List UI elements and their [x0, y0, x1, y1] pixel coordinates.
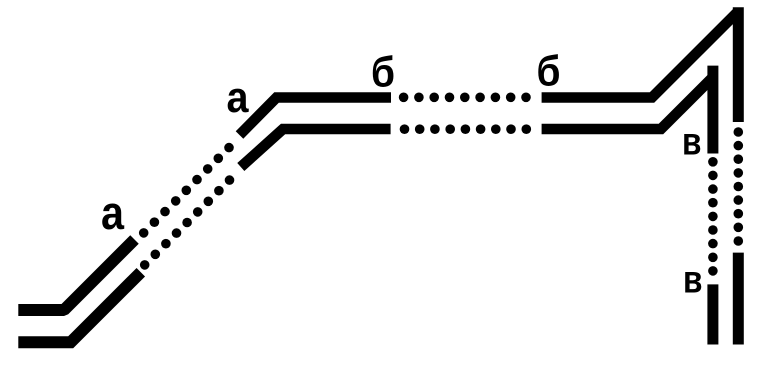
- break dots а: outer diagonal row: [139, 143, 234, 238]
- wire: outer line, bottom of right vertical below break в: [733, 253, 744, 345]
- svg-text:в: в: [682, 121, 702, 164]
- break dots а: inner diagonal row: [140, 175, 234, 269]
- svg-text:б: б: [537, 48, 561, 96]
- svg-text:а: а: [101, 186, 125, 239]
- break dots б: outer horizontal row: [399, 93, 531, 103]
- wire: inner line, bottom of right vertical below break в: [707, 284, 718, 344]
- wire: inner line, diagonal solid above break, top horizontal left of break б: [241, 129, 391, 167]
- wire: outer line, top horizontal right of break б, diagonal to top-right peak, vertical down to break в: [542, 7, 739, 122]
- break dots в: inner vertical row: [708, 157, 718, 276]
- wire: inner line, top horizontal right of break б, diagonal to inner peak, vertical down to break в: [542, 66, 713, 154]
- wire: inner line, lower-left horizontal + diagonal solid segment: [18, 272, 141, 342]
- svg-text:а: а: [227, 73, 249, 122]
- wire: outer line, lower-left horizontal + diagonal solid segment: [18, 240, 134, 311]
- svg-text:в: в: [683, 259, 703, 302]
- svg-text:б: б: [371, 49, 395, 97]
- wire: outer line, diagonal solid above break, top horizontal left of break б: [240, 98, 392, 136]
- break dots в: outer vertical row: [734, 127, 744, 246]
- break dots б: inner horizontal row: [400, 124, 531, 134]
